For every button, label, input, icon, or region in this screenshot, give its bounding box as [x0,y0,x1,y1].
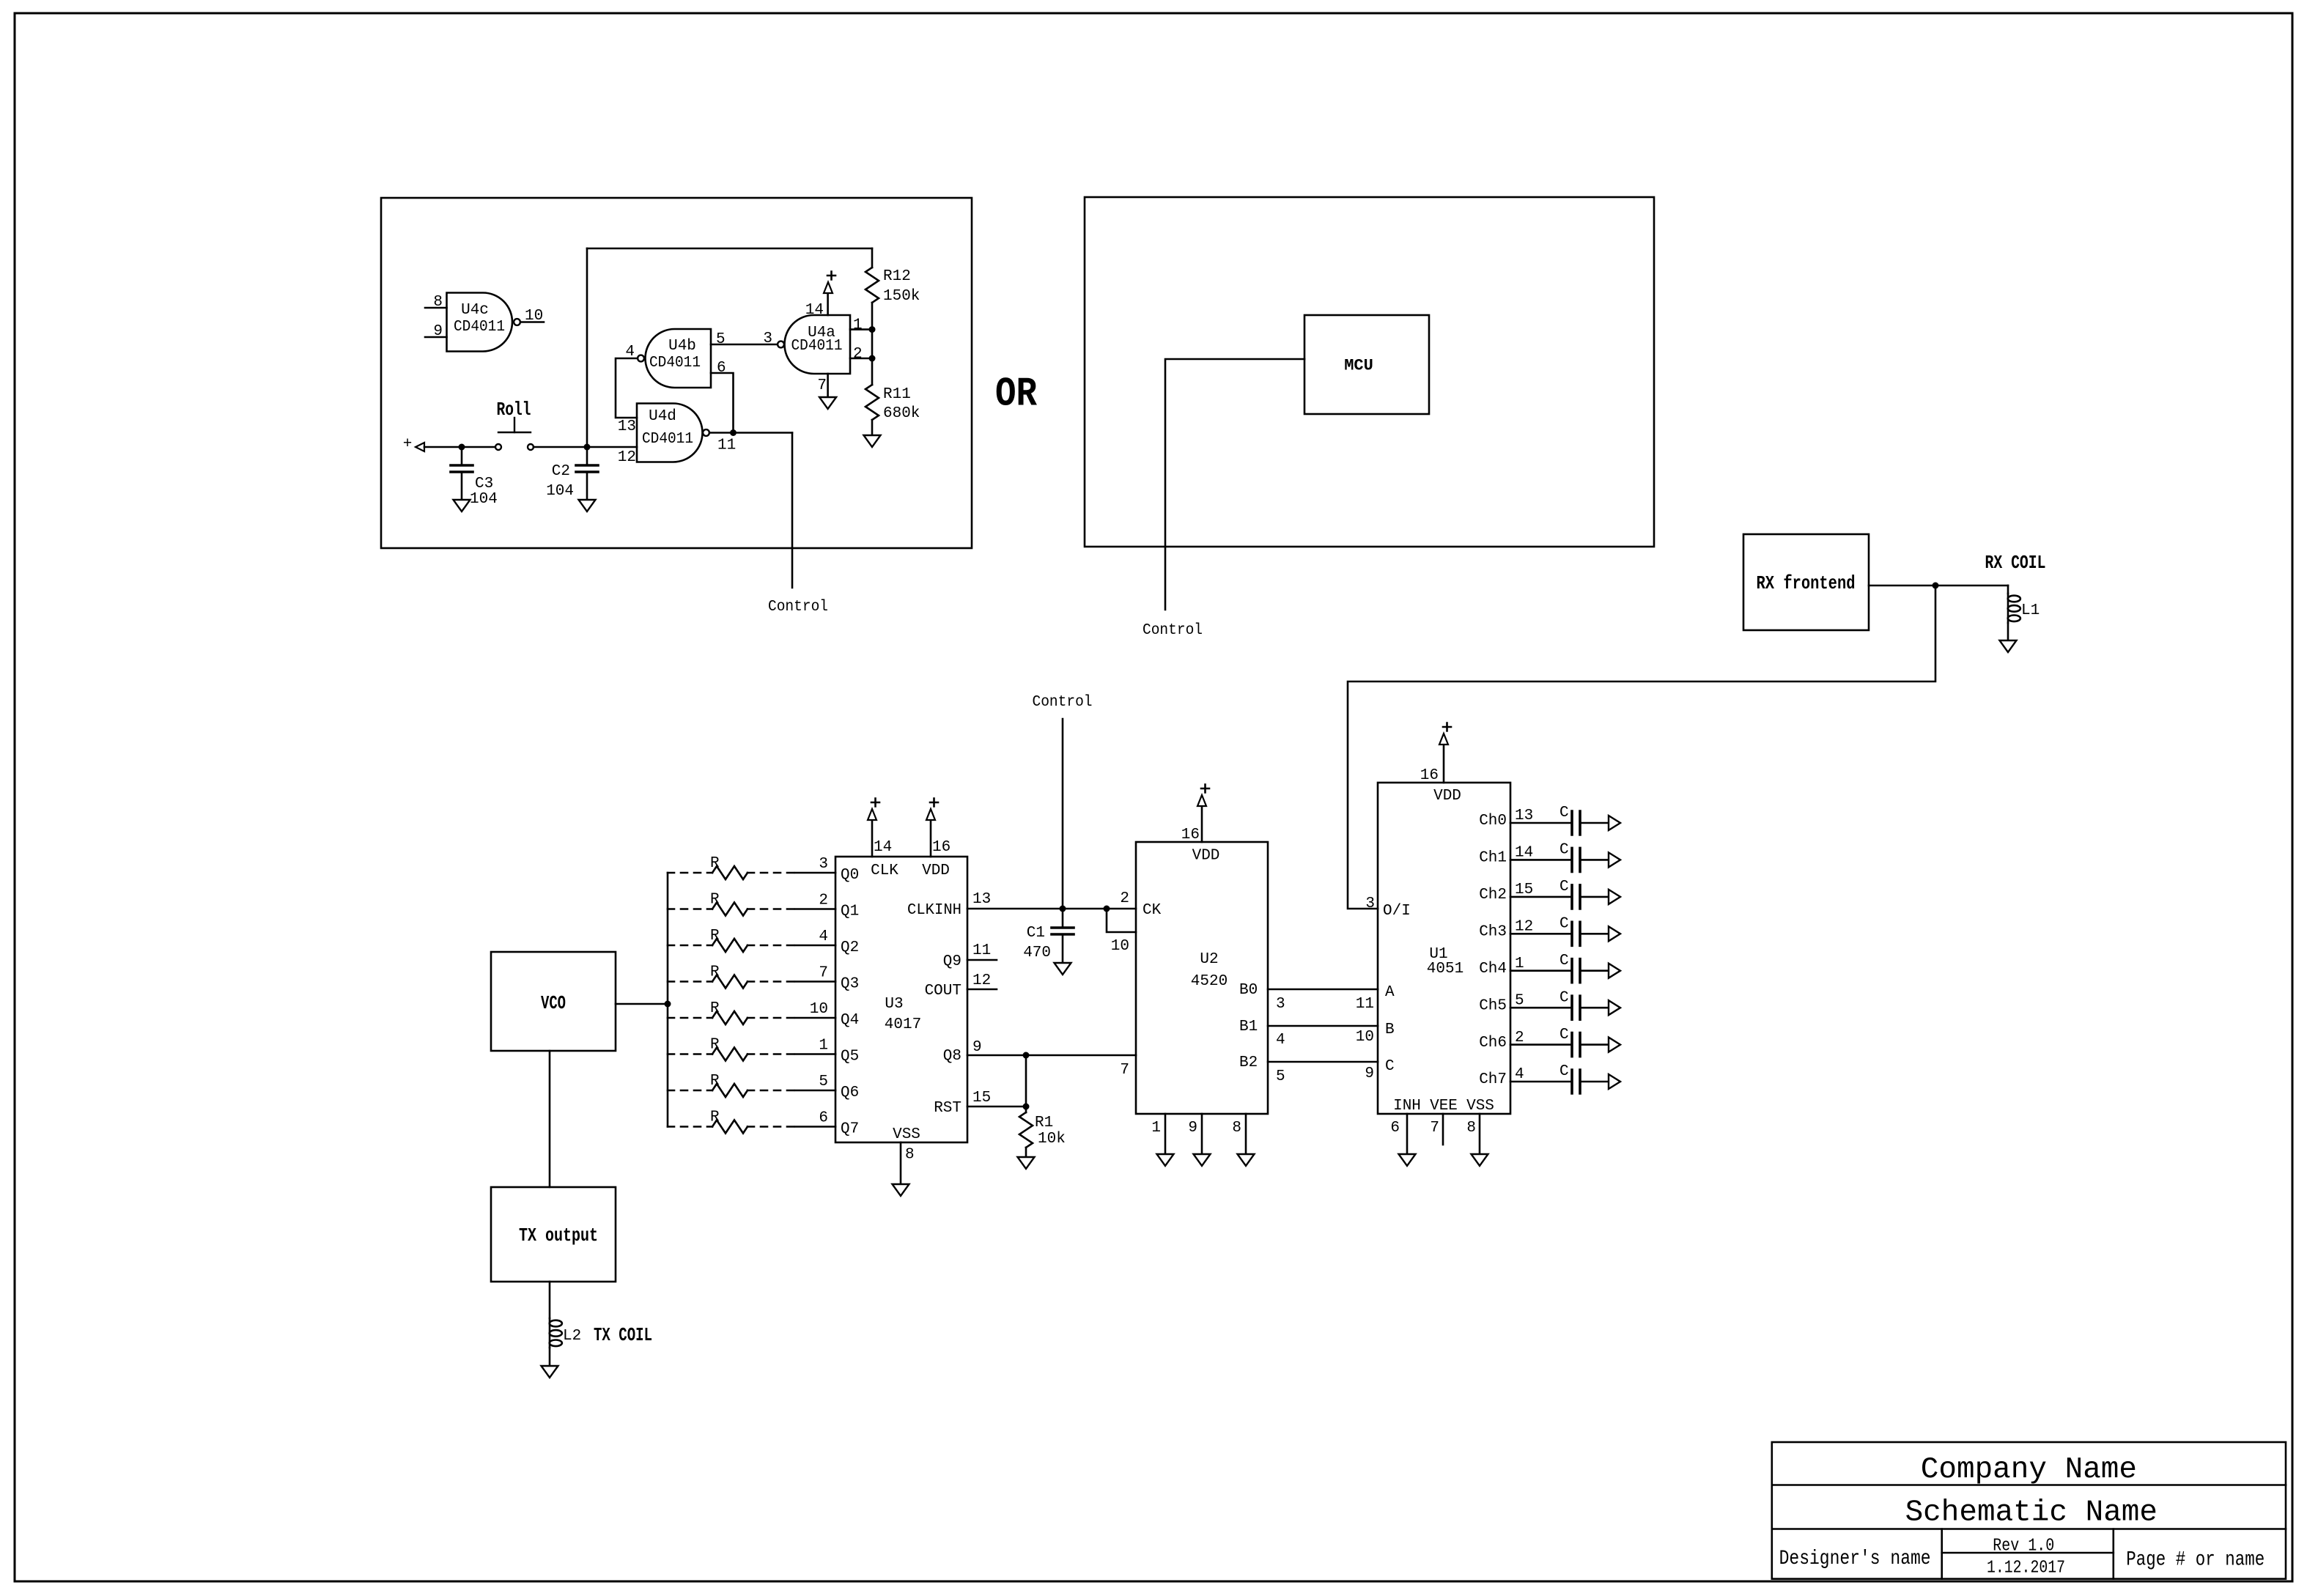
svg-text:Ch0: Ch0 [1479,813,1507,830]
svg-text:R: R [710,892,720,909]
svg-text:7: 7 [819,965,828,982]
wire U1 INH pin 6 [1406,1114,1409,1154]
svg-text:Q3: Q3 [841,976,859,993]
wire Q8 pin 9 to U2 pin 7 [967,1054,1136,1057]
ground U4a pin7 [819,397,836,409]
resistor R row 3 (Q3) [668,964,835,989]
svg-text:INH: INH [1393,1098,1421,1115]
capacitor C1 470 [1023,909,1074,963]
svg-text:3: 3 [1365,895,1375,912]
IC U2 4520 [1136,842,1268,1114]
svg-text:150k: 150k [883,288,920,305]
svg-text:1: 1 [819,1038,828,1054]
svg-text:Q0: Q0 [841,867,859,884]
junction VCO bus [665,1001,671,1008]
wire RX to O/I [1348,585,1935,909]
svg-text:10: 10 [1356,1029,1374,1046]
svg-text:14: 14 [874,839,892,856]
svg-text:7: 7 [817,377,827,394]
svg-text:2: 2 [1120,890,1129,907]
svg-text:R: R [710,928,720,945]
svg-text:4017: 4017 [885,1016,921,1033]
title block [1772,1442,2286,1579]
resistor ladder bus [667,873,669,1127]
power arrow CLK [868,809,876,820]
resistor R row 7 (Q7) [668,1109,835,1134]
ground U1 INH [1399,1154,1416,1166]
channel Ch6 wire + capacitor C + out arrow [1510,1027,1620,1057]
svg-text:Q1: Q1 [841,904,859,920]
svg-text:U4d: U4d [649,408,676,425]
junction node C3 [459,444,465,451]
svg-text:8: 8 [433,294,443,311]
wire VCO out [616,1003,668,1005]
inductor L1 [2008,585,2040,640]
wire U4b pin 4 feedback [616,358,638,418]
svg-text:4: 4 [819,928,828,945]
svg-text:TX COIL: TX COIL [594,1324,652,1346]
svg-text:Q9: Q9 [943,953,961,970]
junction RX node [1933,583,1939,589]
svg-text:B2: B2 [1239,1054,1258,1071]
ground C2 [579,500,596,511]
block RX frontend [1743,534,1869,630]
wire B2 to C [1268,1061,1378,1063]
wire U2 pin 1 [1164,1114,1167,1154]
channel Ch7 wire + capacitor C + out arrow [1510,1063,1620,1093]
wire U4a pin 14 [827,293,829,315]
svg-text:TX output: TX output [519,1224,598,1246]
svg-text:R: R [710,964,720,981]
channel Ch2 wire + capacitor C + out arrow [1510,879,1620,909]
wire node1 to node2 [871,330,874,358]
svg-text:5: 5 [1276,1068,1285,1085]
capacitor C3 104 [451,447,498,508]
svg-text:VDD: VDD [922,862,950,879]
svg-text:8: 8 [1232,1120,1241,1137]
wire U4d output pin 11 [709,432,792,434]
ground L1 [2000,640,2017,652]
block MCU [1304,315,1429,414]
svg-text:Ch1: Ch1 [1479,850,1507,867]
svg-text:Ch4: Ch4 [1479,961,1507,978]
stub U1 VEE pin 7 [1442,1114,1444,1145]
svg-text:12: 12 [1515,919,1533,936]
svg-text:R1: R1 [1035,1115,1053,1131]
wire U1 VDD pin 16 [1443,745,1445,783]
svg-text:4: 4 [1515,1066,1524,1083]
svg-text:8: 8 [1466,1120,1476,1137]
svg-text:4: 4 [625,344,635,361]
resistor R1 10k [1019,1107,1066,1157]
stub COUT pin 12 [967,989,997,991]
option box (discrete logic) [381,198,972,548]
wire MCU control [1165,359,1304,610]
gate U4d CD4011 [637,404,709,462]
channel Ch3 wire + capacitor C + out arrow [1510,916,1620,946]
gate U4a CD4011 [778,315,850,374]
svg-text:2: 2 [853,346,863,363]
wire U4b pin 6 [711,373,734,432]
wire U4a pin 2 [850,358,872,360]
channel Ch1 wire + capacitor C + out arrow [1510,842,1620,872]
power arrow U2 VDD [1197,795,1206,806]
svg-text:+: + [403,436,413,453]
wire U1 VSS pin 8 [1479,1114,1481,1154]
svg-text:680k: 680k [883,405,920,422]
svg-text:3: 3 [1276,996,1285,1013]
svg-text:A: A [1385,984,1395,1001]
svg-text:16: 16 [1181,827,1200,843]
channel Ch0 wire + capacitor C + out arrow [1510,805,1620,835]
channel Ch4 wire + capacitor C + out arrow [1510,953,1620,983]
svg-text:11: 11 [1356,996,1374,1013]
resistor R12 150k [865,248,920,330]
svg-text:11: 11 [972,942,991,959]
svg-text:R: R [710,1109,720,1126]
junction pin6/pin11 [730,429,737,436]
resistor R row 6 (Q6) [668,1073,835,1097]
svg-text:10k: 10k [1038,1131,1066,1148]
block TX output [491,1187,616,1282]
power arrow U1 VDD [1439,734,1448,745]
wire CLKINH to CK [1063,908,1136,910]
svg-text:4520: 4520 [1191,973,1228,990]
svg-text:CD4011: CD4011 [649,355,701,372]
ground C3 [454,500,470,511]
svg-text:10: 10 [525,308,543,325]
svg-text:9: 9 [1188,1120,1197,1137]
svg-text:CD4011: CD4011 [791,338,843,355]
wire U4a pin 1 [850,328,872,330]
svg-text:10: 10 [810,1001,828,1018]
gate U4c CD4011 [447,293,520,352]
svg-text:VCO: VCO [541,992,566,1014]
svg-text:R: R [710,1037,720,1054]
junction pin1/R12 [869,326,876,333]
svg-text:470: 470 [1023,945,1051,961]
stub Q9 pin 11 [967,959,997,961]
resistor R11 680k [865,358,920,435]
svg-text:Control: Control [1143,622,1203,639]
svg-text:RX COIL: RX COIL [1985,552,2046,574]
junction CK jog [1104,906,1110,912]
svg-text:14: 14 [805,302,824,319]
svg-text:9: 9 [1365,1065,1374,1082]
svg-text:5: 5 [716,331,726,348]
svg-text:12: 12 [972,972,991,989]
svg-text:Designer's name: Designer's name [1779,1548,1931,1570]
junction pin2/R11 [869,355,876,362]
svg-text:104: 104 [470,491,498,508]
ground U3 VSS [893,1184,909,1196]
svg-text:OR: OR [995,370,1037,417]
svg-text:15: 15 [1515,882,1533,898]
power arrow U4a [824,282,833,293]
svg-text:C: C [1559,1027,1569,1043]
wire U2 VDD pin 16 [1201,806,1203,842]
svg-text:VEE: VEE [1430,1098,1458,1115]
ground U2 pin9 [1194,1154,1211,1166]
channel Ch5 wire + capacitor C + out arrow [1510,989,1620,1019]
svg-text:10: 10 [1111,938,1129,955]
svg-text:O/I: O/I [1383,903,1411,920]
wire U4c pin 10 output [520,321,544,323]
svg-text:5: 5 [1515,992,1524,1009]
wire supply to switch [424,446,495,448]
svg-text:4051: 4051 [1427,961,1463,978]
svg-text:13: 13 [618,418,636,435]
wire B0 to A [1268,989,1378,991]
svg-text:16: 16 [932,839,951,856]
svg-text:13: 13 [972,891,991,908]
wire RST pin 15 [967,1106,1026,1108]
svg-text:9: 9 [433,323,443,340]
svg-text:U4c: U4c [461,302,489,319]
svg-text:VSS: VSS [893,1126,920,1143]
svg-text:Q8: Q8 [943,1048,961,1065]
resistor R row 2 (Q2) [668,928,835,952]
svg-text:R12: R12 [883,268,911,285]
svg-text:6: 6 [717,360,726,377]
svg-text:CLKINH: CLKINH [907,902,961,919]
junction node C2 [584,444,591,451]
wire U3 VSS pin 8 [900,1142,902,1184]
switch Roll [495,399,534,450]
svg-text:Rev 1.0: Rev 1.0 [1993,1536,2054,1556]
wire U4c pin 9 [425,336,447,339]
ground C1 [1055,963,1071,975]
svg-text:Control: Control [1033,694,1093,711]
ground L2 [542,1366,558,1378]
svg-text:1.12.2017: 1.12.2017 [1987,1558,2065,1578]
wire jog to pin 10 [1107,909,1136,932]
svg-text:COUT: COUT [925,983,961,1000]
svg-text:CD4011: CD4011 [454,319,505,336]
svg-text:C: C [1559,879,1569,895]
svg-text:C: C [1559,1063,1569,1080]
svg-text:Page # or name: Page # or name [2126,1549,2264,1572]
plus supply arrow [416,443,424,451]
svg-text:R: R [710,1000,720,1017]
svg-text:C: C [1559,953,1569,969]
svg-text:15: 15 [972,1090,991,1107]
svg-text:VDD: VDD [1192,848,1220,865]
wire feedback top [587,248,872,250]
wire switch to U4d pin 12 [534,446,637,448]
svg-text:6: 6 [819,1110,828,1127]
svg-text:L2: L2 [563,1328,581,1345]
svg-text:L1: L1 [2021,602,2040,619]
svg-text:U2: U2 [1200,951,1218,968]
junction CLKINH/C1/Control [1060,906,1066,912]
svg-text:MCU: MCU [1344,357,1373,375]
wire Control 3 drop [1062,719,1064,909]
svg-text:8: 8 [905,1147,915,1164]
resistor R row 4 (Q4) [668,1000,835,1024]
resistor R row 0 (Q0) [668,855,835,879]
svg-text:RST: RST [934,1100,961,1117]
svg-text:Ch7: Ch7 [1479,1071,1507,1088]
svg-text:Schematic Name: Schematic Name [1905,1496,2157,1530]
svg-text:1: 1 [853,317,863,334]
block VCO [491,952,616,1051]
svg-text:11: 11 [717,437,736,454]
svg-text:14: 14 [1515,845,1533,862]
svg-text:Roll: Roll [497,399,531,421]
svg-text:3: 3 [819,856,828,873]
svg-text:Q5: Q5 [841,1049,859,1065]
svg-text:3: 3 [763,330,772,347]
svg-text:VSS: VSS [1466,1098,1494,1115]
option box (MCU) [1085,197,1654,547]
svg-text:CK: CK [1143,902,1162,919]
svg-text:U4b: U4b [668,338,696,355]
svg-text:U3: U3 [885,996,903,1013]
svg-text:C: C [1559,842,1569,859]
wire U3 CLK pin 14 [871,820,874,857]
svg-text:6: 6 [1390,1120,1400,1137]
svg-text:Control: Control [768,599,828,616]
wire U3 VDD pin 16 [930,820,932,857]
wire U4a pin 7 [827,374,829,397]
svg-text:C: C [1559,916,1569,933]
power arrow U3 VDD [926,809,935,820]
svg-text:Company Name: Company Name [1921,1453,2137,1487]
wire U4c pin 8 [425,307,447,309]
junction RST/R1 [1023,1104,1030,1110]
wire control 1 drop [791,433,794,588]
svg-text:2: 2 [819,893,828,909]
wire U4b pin5 to U4a pin3 [711,344,778,346]
svg-text:16: 16 [1420,767,1439,784]
resistor R row 5 (Q5) [668,1037,835,1061]
wire RX out [1869,585,2008,587]
svg-text:B0: B0 [1239,982,1258,999]
svg-text:CD4011: CD4011 [642,431,693,448]
wire feedback up [586,248,588,447]
ground U2 pin1 [1157,1154,1174,1166]
svg-text:C1: C1 [1027,925,1045,942]
svg-text:Ch3: Ch3 [1479,924,1507,941]
svg-text:Q6: Q6 [841,1085,859,1101]
svg-text:7: 7 [1430,1120,1439,1137]
svg-text:104: 104 [546,483,574,500]
svg-text:12: 12 [618,449,636,466]
ground U2 pin8 [1238,1154,1255,1166]
ground R11 [864,435,881,447]
svg-text:C3: C3 [475,476,493,492]
IC U3 4017 [835,857,967,1143]
wire VCO to TX output [549,1051,551,1187]
IC U1 4051 [1378,783,1510,1115]
svg-text:2: 2 [1515,1030,1524,1046]
svg-text:5: 5 [819,1074,828,1090]
svg-text:C: C [1559,989,1569,1006]
svg-text:Ch6: Ch6 [1479,1035,1507,1052]
svg-text:Ch5: Ch5 [1479,997,1507,1014]
wire U2 pin 9 [1201,1114,1203,1154]
ground U1 VSS [1472,1154,1488,1166]
svg-text:Ch2: Ch2 [1479,887,1507,904]
svg-text:R: R [710,855,720,872]
wire B1 to B [1268,1025,1378,1027]
svg-text:C2: C2 [552,463,570,480]
svg-text:B1: B1 [1239,1019,1258,1035]
svg-text:Q2: Q2 [841,939,859,956]
wire Q8 to RST [1025,1055,1027,1107]
resistor R row 1 (Q1) [668,892,835,916]
svg-text:Q4: Q4 [841,1012,859,1029]
svg-text:VDD: VDD [1433,788,1461,805]
ground R1 [1018,1157,1035,1169]
svg-text:7: 7 [1120,1062,1129,1079]
svg-text:R11: R11 [883,386,911,403]
capacitor C2 104 [546,447,598,500]
svg-text:9: 9 [972,1039,982,1056]
svg-text:C: C [1559,805,1569,821]
junction Q8/R1 [1023,1052,1030,1059]
svg-text:CLK: CLK [871,862,898,879]
svg-text:4: 4 [1276,1032,1285,1049]
svg-text:1: 1 [1151,1120,1161,1137]
inductor L2 [550,1282,582,1366]
svg-text:Q7: Q7 [841,1121,859,1138]
svg-text:R: R [710,1073,720,1090]
svg-text:13: 13 [1515,808,1533,824]
svg-text:C: C [1385,1058,1395,1075]
svg-text:B: B [1385,1021,1395,1038]
svg-text:RX frontend: RX frontend [1757,572,1856,594]
svg-text:1: 1 [1515,956,1524,972]
wire CLKINH pin 13 [967,908,1063,910]
wire U2 pin 8 [1245,1114,1247,1154]
gate U4b CD4011 [638,329,711,388]
